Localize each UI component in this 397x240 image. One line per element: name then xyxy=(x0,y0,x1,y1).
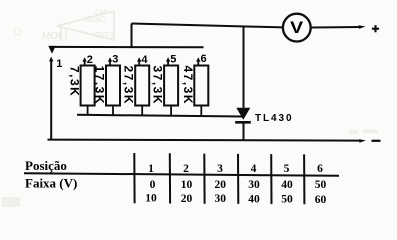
svg-text:0: 0 xyxy=(150,179,156,191)
svg-text:I30PT: I30PT xyxy=(93,31,114,40)
resistor 37,3K xyxy=(164,57,178,115)
svg-text:6: 6 xyxy=(317,163,323,175)
table row Faixa upper values xyxy=(150,179,327,191)
wire: resistor bottom bus xyxy=(77,115,244,117)
svg-text:4: 4 xyxy=(141,54,148,66)
svg-text:37,3K: 37,3K xyxy=(151,66,165,106)
svg-text:4: 4 xyxy=(251,163,257,175)
wire: voltmeter to + terminal xyxy=(311,26,361,29)
svg-text:5: 5 xyxy=(284,163,290,175)
terminal - arrowhead xyxy=(359,139,366,143)
wire: top rail from bus junction to voltmeter xyxy=(132,24,283,28)
svg-text:O: O xyxy=(14,27,22,38)
svg-text:3: 3 xyxy=(217,163,223,175)
svg-text:TL430: TL430 xyxy=(255,113,293,124)
svg-text:20: 20 xyxy=(215,179,227,191)
table row Faixa lower values xyxy=(145,193,326,206)
wire: branch vertical from top rail down to TL430 xyxy=(243,26,245,108)
svg-text:1: 1 xyxy=(148,163,154,175)
svg-text:27,3K: 27,3K xyxy=(122,66,136,106)
table: header rule xyxy=(24,173,339,176)
terminal + label xyxy=(372,25,379,32)
svg-text:3: 3 xyxy=(112,54,118,66)
ghost bleed upper-left (decorative, faint) xyxy=(2,8,378,207)
svg-text:50: 50 xyxy=(281,194,293,206)
svg-text:40: 40 xyxy=(248,193,260,205)
terminal + arrowhead xyxy=(359,25,366,29)
svg-text:47,3K: 47,3K xyxy=(181,66,195,106)
meter V (voltmeter) xyxy=(283,14,311,42)
svg-text:2: 2 xyxy=(87,54,93,66)
wire: bottom rail to - terminal xyxy=(48,140,362,141)
svg-text:I42aC: I42aC xyxy=(84,15,106,24)
resistor 47,3K xyxy=(194,57,208,115)
resistor 17,3K xyxy=(106,57,120,115)
resistor 27,3K xyxy=(135,57,149,115)
svg-text:30: 30 xyxy=(215,193,227,205)
table: column separators xyxy=(134,153,304,204)
svg-text:30: 30 xyxy=(248,179,260,191)
svg-text:Posição: Posição xyxy=(25,158,67,173)
switch contact 1 xyxy=(49,57,53,62)
resistor 7,3K xyxy=(81,57,95,115)
svg-text:6: 6 xyxy=(201,53,207,65)
svg-text:2: 2 xyxy=(183,163,189,175)
svg-text:20: 20 xyxy=(181,193,193,205)
svg-text:Faixa (V): Faixa (V) xyxy=(25,176,77,191)
diode TL430 (shunt regulator) xyxy=(235,108,251,123)
svg-text:10: 10 xyxy=(145,193,157,205)
svg-text:40: 40 xyxy=(281,179,293,191)
wire: switch bus rail xyxy=(50,46,204,48)
svg-text:5: 5 xyxy=(170,54,176,66)
svg-text:10: 10 xyxy=(181,179,193,191)
wire: TL430 cathode to bottom rail xyxy=(243,122,245,140)
svg-text:50: 50 xyxy=(315,179,327,191)
svg-text:60: 60 xyxy=(315,194,327,206)
svg-text:MOI: MOI xyxy=(42,31,61,42)
switch wiper arrow (rotary selector) xyxy=(48,46,55,54)
svg-text:7,3K: 7,3K xyxy=(67,66,81,97)
svg-text:17,3K: 17,3K xyxy=(93,66,107,106)
table header numbers 1-6 xyxy=(148,163,323,175)
terminal - label xyxy=(372,140,381,142)
svg-text:1: 1 xyxy=(56,58,62,70)
wire: junction vertical from top rail down to switch bus xyxy=(131,24,133,48)
wire: left vertical (contact 1 to bottom rail) xyxy=(50,59,52,140)
svg-text:V: V xyxy=(290,18,304,37)
